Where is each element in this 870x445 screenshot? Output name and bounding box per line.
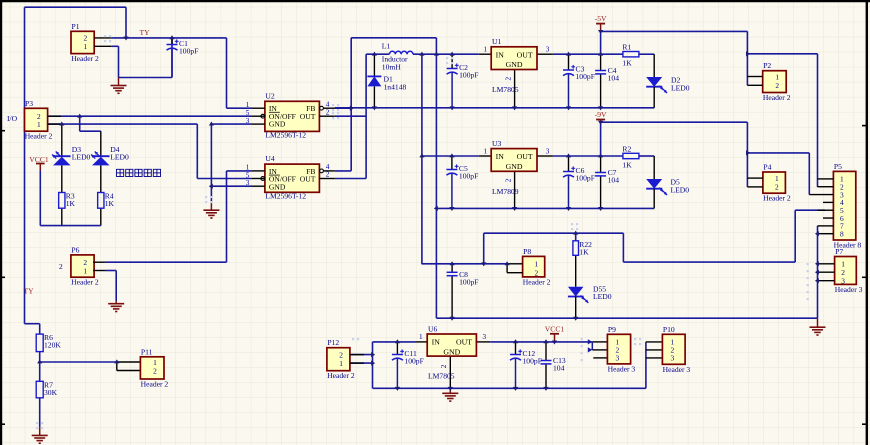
svg-text:3: 3 [546,46,550,54]
svg-text:104: 104 [553,364,565,373]
svg-text:100pF: 100pF [576,72,595,81]
svg-text:104: 104 [608,74,620,83]
svg-text:10mH: 10mH [382,63,402,72]
svg-text:P10: P10 [663,325,675,334]
svg-text:LED0: LED0 [110,153,129,162]
svg-text:U3: U3 [492,139,501,148]
svg-text:GND: GND [506,60,523,69]
svg-text:U1: U1 [492,37,501,46]
svg-text:U2: U2 [265,91,274,100]
svg-text:P2: P2 [763,61,771,70]
svg-text:4: 4 [326,100,330,108]
svg-text:1: 1 [84,42,88,51]
svg-text:Header 2: Header 2 [71,278,99,287]
svg-text:GND: GND [269,120,286,129]
svg-text:LM7805: LM7805 [492,85,519,94]
svg-text:-9V: -9V [595,110,607,119]
svg-text:1K: 1K [105,199,115,208]
svg-text:LED0: LED0 [671,186,690,195]
svg-text:3: 3 [483,333,487,341]
svg-text:1: 1 [246,101,250,109]
svg-text:P7: P7 [835,247,843,256]
svg-text:100pF: 100pF [576,174,595,183]
svg-text:2: 2 [775,81,779,90]
svg-text:Header 2: Header 2 [763,93,791,102]
svg-text:1: 1 [419,333,423,341]
svg-text:OUT: OUT [517,152,533,161]
svg-text:Header 3: Header 3 [663,365,691,374]
svg-text:GND: GND [443,347,460,356]
svg-text:P4: P4 [763,163,771,172]
svg-text:1n4148: 1n4148 [384,83,407,92]
svg-text:100pF: 100pF [404,357,423,366]
svg-text:3: 3 [616,354,620,363]
svg-text:LED0: LED0 [671,84,690,93]
svg-text:1K: 1K [622,161,632,170]
svg-text:2: 2 [534,269,538,278]
svg-text:1K: 1K [622,59,632,68]
svg-text:LM2596T-12: LM2596T-12 [265,192,306,201]
svg-text:3: 3 [841,277,845,286]
svg-text:R1: R1 [622,43,631,52]
svg-text:1: 1 [339,359,343,368]
svg-text:8: 8 [840,230,844,239]
svg-text:VCC1: VCC1 [545,324,565,333]
svg-text:Header 2: Header 2 [25,132,53,141]
svg-text:100pF: 100pF [459,172,478,181]
svg-text:P11: P11 [141,347,153,356]
svg-text:Header 2: Header 2 [763,194,791,203]
svg-text:OUT: OUT [300,175,316,184]
svg-text:LM7805: LM7805 [428,372,455,381]
svg-text:LED0: LED0 [593,292,612,301]
svg-text:1: 1 [534,260,538,269]
svg-text:100pF: 100pF [459,277,478,286]
svg-text:2: 2 [326,108,330,116]
svg-text:100pF: 100pF [179,47,198,56]
svg-text:1: 1 [37,120,41,129]
svg-text:LM2596T-12: LM2596T-12 [265,131,306,140]
svg-text:Header 2: Header 2 [523,277,551,286]
svg-text:2: 2 [153,366,157,375]
svg-text:120K: 120K [44,341,61,350]
svg-text:U4: U4 [265,154,274,163]
svg-text:P12: P12 [327,338,339,347]
svg-text:P3: P3 [25,99,33,108]
svg-text:3: 3 [671,354,675,363]
svg-text:2: 2 [505,77,513,81]
svg-text:TY: TY [140,28,151,37]
svg-text:100pF: 100pF [523,357,542,366]
svg-text:P6: P6 [71,245,79,254]
svg-text:GND: GND [269,183,286,192]
svg-text:3: 3 [246,179,250,187]
svg-text:1: 1 [83,266,87,275]
svg-text:Header 2: Header 2 [71,54,99,63]
svg-text:Header 3: Header 3 [608,364,636,373]
svg-text:Header 2: Header 2 [141,380,169,389]
svg-text:Header 2: Header 2 [327,371,355,380]
svg-text:2: 2 [59,262,63,271]
svg-text:IN: IN [496,152,505,161]
svg-text:2: 2 [505,178,513,182]
svg-text:P5: P5 [834,162,842,171]
svg-text:L1: L1 [382,42,391,51]
svg-text:1: 1 [484,147,488,155]
svg-text:LED0: LED0 [72,153,91,162]
svg-text:TY: TY [24,287,35,296]
svg-text:P9: P9 [608,325,616,334]
svg-text:1: 1 [775,174,779,183]
svg-text:2: 2 [326,171,330,179]
svg-text:3: 3 [546,147,550,155]
svg-text:GND: GND [506,162,523,171]
svg-text:P1: P1 [72,22,80,31]
svg-text:30K: 30K [44,388,58,397]
svg-text:1K: 1K [66,199,76,208]
svg-text:VCC1: VCC1 [29,155,49,164]
svg-text:104: 104 [608,176,620,185]
svg-text:3: 3 [246,117,250,125]
svg-text:5: 5 [246,109,250,117]
svg-text:1: 1 [484,46,488,54]
svg-text:2: 2 [440,364,448,368]
svg-text:U6: U6 [428,324,437,333]
svg-text:OUT: OUT [517,50,533,59]
svg-text:1K: 1K [579,247,589,256]
svg-text:OUT: OUT [300,112,316,121]
svg-text:OUT: OUT [456,338,472,347]
svg-text:1: 1 [775,72,779,81]
svg-text:P8: P8 [523,247,531,256]
svg-text:2: 2 [775,183,779,192]
svg-text:I/O: I/O [7,114,18,123]
svg-text:Header 3: Header 3 [835,285,863,294]
svg-text:IN: IN [432,338,441,347]
svg-text:IN: IN [496,50,505,59]
svg-text:100pF: 100pF [459,71,478,80]
svg-text:-5V: -5V [595,14,607,23]
svg-text:LM7809: LM7809 [492,187,519,196]
svg-text:R2: R2 [622,145,631,154]
